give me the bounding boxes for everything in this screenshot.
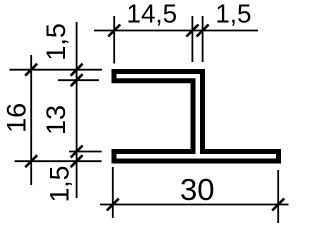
svg-text:30: 30	[180, 172, 214, 207]
top dimension extension line mid (x=192.7)	[191, 16, 193, 62]
top ticks	[108, 25, 120, 37]
svg-text:1,5: 1,5	[41, 23, 71, 61]
left ticks	[25, 64, 37, 76]
left extension line top surface y=69.7	[10, 69, 103, 71]
left inner dimension line x=76.6	[76, 22, 78, 198]
bottom extension line left x=112.8	[112, 167, 114, 218]
svg-text:1,5: 1,5	[215, 0, 251, 29]
left extension line bottom flange top y=151.5	[69, 151, 102, 153]
svg-text:13: 13	[41, 105, 71, 135]
svg-text:16: 16	[2, 103, 32, 133]
top dimension extension line left (x=114.2)	[113, 16, 115, 64]
svg-text:1,5: 1,5	[45, 166, 75, 203]
bottom ticks	[107, 199, 119, 211]
profile cross-section outline	[114, 72, 279, 162]
left extension line top flange bottom y=80.2	[58, 79, 99, 81]
top dimension line y=30.5	[94, 30, 258, 32]
bottom dimension line y=204.5	[100, 204, 289, 206]
left outer dimension line x=31.2 (16)	[30, 55, 32, 185]
top dimension extension line right (x=202.6)	[202, 16, 204, 62]
left extension line bottom surface y=161.2	[15, 160, 102, 162]
bottom extension line right x=278.2	[277, 170, 279, 223]
svg-text:14,5: 14,5	[126, 0, 177, 29]
